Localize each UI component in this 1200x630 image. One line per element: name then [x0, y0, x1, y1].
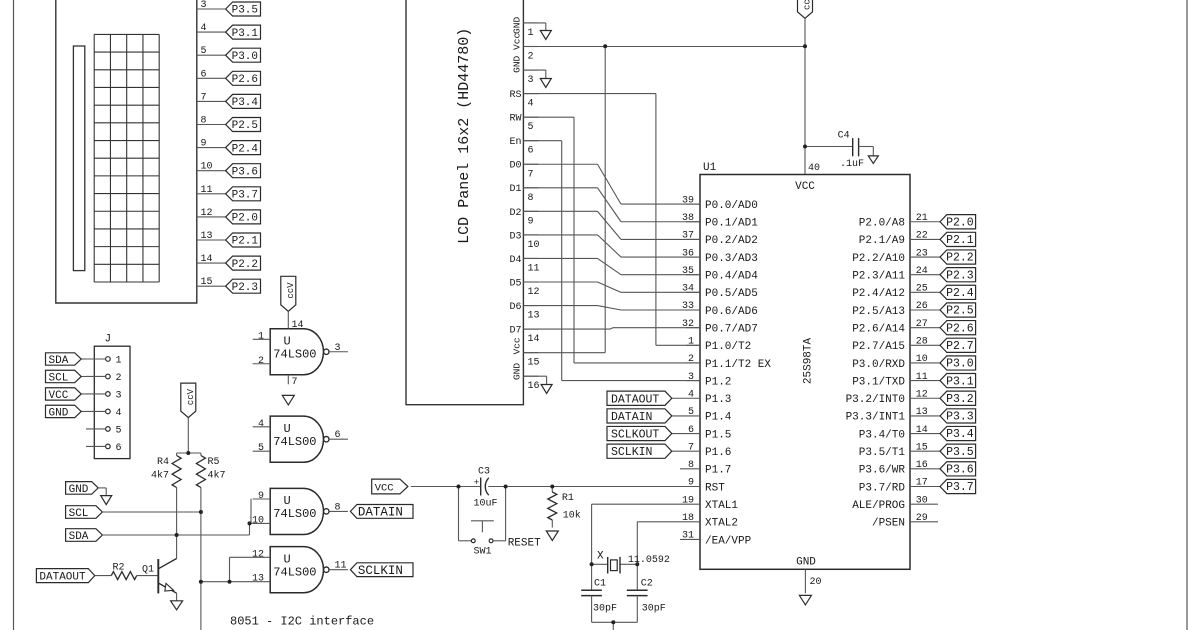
svg-text:30pF: 30pF — [593, 604, 617, 615]
svg-text:SCLKIN: SCLKIN — [611, 446, 652, 459]
svg-text:P2.0: P2.0 — [946, 216, 974, 229]
svg-text:11.0592: 11.0592 — [628, 555, 670, 566]
svg-text:22: 22 — [916, 231, 928, 242]
svg-text:P3.3: P3.3 — [946, 411, 974, 424]
svg-text:4k7: 4k7 — [151, 470, 169, 482]
svg-text:P3.2/INT0: P3.2/INT0 — [846, 394, 905, 406]
svg-text:DATAIN: DATAIN — [611, 411, 652, 424]
svg-text:5: 5 — [201, 46, 207, 57]
svg-text:4: 4 — [116, 408, 122, 419]
svg-text:4: 4 — [201, 23, 207, 34]
svg-text:7: 7 — [292, 377, 298, 388]
svg-text:ccV: ccV — [186, 388, 196, 405]
svg-text:6: 6 — [116, 443, 122, 454]
svg-text:En: En — [509, 137, 521, 148]
svg-text:4: 4 — [688, 389, 694, 400]
svg-text:P2.4: P2.4 — [946, 287, 974, 300]
svg-text:J: J — [105, 334, 112, 346]
svg-text:6: 6 — [335, 430, 341, 441]
svg-text:P2.6: P2.6 — [232, 74, 258, 86]
svg-text:P0.2/AD2: P0.2/AD2 — [705, 235, 758, 247]
svg-text:GND: GND — [512, 17, 523, 34]
svg-text:6: 6 — [528, 146, 534, 157]
svg-text:P3.0: P3.0 — [232, 51, 258, 63]
svg-text:P2.6/A14: P2.6/A14 — [852, 323, 905, 335]
svg-text:GND: GND — [69, 484, 89, 496]
svg-text:2: 2 — [258, 356, 264, 367]
svg-text:DATAOUT: DATAOUT — [39, 572, 86, 584]
svg-text:4: 4 — [528, 99, 534, 110]
svg-text:P3.4/T0: P3.4/T0 — [859, 429, 905, 441]
svg-text:D7: D7 — [509, 326, 521, 337]
svg-text:P2.4: P2.4 — [232, 143, 259, 155]
svg-text:P3.2: P3.2 — [946, 393, 974, 406]
svg-text:10uF: 10uF — [474, 499, 498, 510]
svg-text:SCLKIN: SCLKIN — [358, 564, 403, 578]
svg-text:P2.1: P2.1 — [946, 234, 974, 247]
svg-text:XTAL2: XTAL2 — [705, 518, 738, 530]
svg-text:P2.6: P2.6 — [946, 322, 974, 335]
svg-text:25S98TA: 25S98TA — [803, 338, 815, 385]
svg-text:P3.0/RXD: P3.0/RXD — [852, 359, 905, 371]
svg-text:P3.5: P3.5 — [232, 5, 258, 17]
svg-text:P2.2/A10: P2.2/A10 — [852, 253, 905, 265]
svg-text:12: 12 — [528, 287, 540, 298]
svg-text:P3.0: P3.0 — [946, 358, 974, 371]
svg-text:P3.5/T1: P3.5/T1 — [859, 447, 906, 459]
svg-text:P2.3/A11: P2.3/A11 — [852, 271, 905, 283]
svg-text:19: 19 — [682, 495, 694, 506]
svg-text:C1: C1 — [594, 579, 606, 590]
svg-text:P3.3/INT1: P3.3/INT1 — [846, 412, 906, 424]
svg-text:P2.4/A12: P2.4/A12 — [852, 288, 905, 300]
svg-text:4k7: 4k7 — [208, 470, 226, 482]
svg-text:8: 8 — [528, 193, 534, 204]
svg-text:P0.0/AD0: P0.0/AD0 — [705, 200, 758, 212]
svg-text:ccV: ccV — [803, 0, 813, 10]
svg-text:P0.4/AD4: P0.4/AD4 — [705, 271, 758, 283]
svg-text:P1.6: P1.6 — [705, 447, 731, 459]
svg-text:74LS00: 74LS00 — [273, 347, 316, 361]
svg-text:GND: GND — [512, 363, 523, 380]
svg-text:37: 37 — [682, 231, 694, 242]
svg-text:DATAIN: DATAIN — [358, 506, 403, 520]
svg-text:P1.0/T2: P1.0/T2 — [705, 341, 751, 353]
svg-text:3: 3 — [116, 391, 122, 402]
svg-text:P1.7: P1.7 — [705, 465, 731, 477]
svg-text:8: 8 — [201, 116, 207, 127]
svg-text:P2.0/A8: P2.0/A8 — [859, 218, 905, 230]
svg-text:12: 12 — [201, 208, 213, 219]
svg-text:D6: D6 — [509, 302, 521, 313]
svg-text:VCC: VCC — [795, 181, 815, 193]
svg-text:40: 40 — [808, 163, 820, 174]
svg-text:P3.1/TXD: P3.1/TXD — [852, 376, 905, 388]
svg-text:P1.2: P1.2 — [705, 376, 731, 388]
svg-text:LCD Panel 16x2 (HD44780): LCD Panel 16x2 (HD44780) — [456, 28, 473, 244]
svg-text:RS: RS — [509, 90, 521, 101]
svg-text:10: 10 — [201, 162, 213, 173]
svg-text:C2: C2 — [641, 579, 653, 590]
svg-text:GND: GND — [796, 557, 816, 569]
svg-text:RESET: RESET — [508, 538, 541, 550]
svg-text:74LS00: 74LS00 — [273, 565, 316, 579]
svg-text:R5: R5 — [208, 457, 220, 468]
svg-text:Vcc: Vcc — [512, 33, 523, 50]
svg-text:U1: U1 — [703, 162, 717, 174]
svg-text:5: 5 — [258, 443, 264, 454]
svg-text:P2.5: P2.5 — [946, 305, 974, 318]
svg-text:VCC: VCC — [49, 390, 69, 402]
svg-text:13: 13 — [528, 311, 540, 322]
svg-text:7: 7 — [528, 169, 534, 180]
svg-text:20: 20 — [810, 577, 822, 588]
svg-text:X: X — [597, 551, 604, 563]
svg-text:DATAOUT: DATAOUT — [611, 393, 659, 406]
svg-text:11: 11 — [528, 263, 540, 274]
svg-text:32: 32 — [682, 319, 694, 330]
svg-text:P1.1/T2 EX: P1.1/T2 EX — [705, 359, 771, 371]
svg-text:P2.2: P2.2 — [946, 252, 974, 265]
svg-text:10: 10 — [528, 240, 540, 251]
svg-text:4: 4 — [258, 419, 264, 430]
svg-text:10k: 10k — [563, 510, 581, 522]
svg-text:8051 - I2C interface: 8051 - I2C interface — [230, 615, 374, 629]
svg-text:23: 23 — [916, 248, 928, 259]
svg-text:P3.6/WR: P3.6/WR — [859, 465, 906, 477]
svg-text:P2.1/A9: P2.1/A9 — [859, 235, 905, 247]
svg-text:ccV: ccV — [286, 282, 296, 299]
svg-text:14: 14 — [292, 320, 304, 331]
svg-text:P1.5: P1.5 — [705, 429, 731, 441]
svg-text:12: 12 — [252, 549, 264, 560]
svg-text:Vcc: Vcc — [512, 337, 523, 354]
svg-text:17: 17 — [916, 478, 928, 489]
svg-text:6: 6 — [688, 425, 694, 436]
svg-text:C3: C3 — [478, 467, 490, 478]
svg-text:VCC: VCC — [375, 482, 394, 494]
svg-text:P2.5: P2.5 — [232, 120, 258, 132]
svg-text:P2.0: P2.0 — [232, 213, 258, 225]
svg-text:P2.7: P2.7 — [946, 340, 974, 353]
svg-text:P1.3: P1.3 — [705, 394, 731, 406]
svg-text:13: 13 — [252, 574, 264, 585]
svg-text:13: 13 — [916, 407, 928, 418]
svg-text:P2.7/A15: P2.7/A15 — [852, 341, 905, 353]
svg-text:2: 2 — [528, 52, 534, 63]
svg-text:GND: GND — [512, 55, 523, 72]
svg-text:1: 1 — [116, 356, 122, 367]
svg-text:7: 7 — [201, 92, 207, 103]
svg-text:9: 9 — [688, 478, 694, 489]
svg-text:D1: D1 — [509, 184, 521, 195]
svg-text:15: 15 — [528, 358, 540, 369]
svg-text:10: 10 — [252, 515, 264, 526]
svg-text:D2: D2 — [509, 208, 521, 219]
svg-text:SDA: SDA — [49, 355, 69, 367]
svg-text:Q1: Q1 — [142, 565, 154, 576]
svg-text:5: 5 — [528, 122, 534, 133]
svg-text:P3.6: P3.6 — [946, 464, 974, 477]
svg-text:14: 14 — [528, 334, 540, 345]
svg-text:P0.5/AD5: P0.5/AD5 — [705, 288, 758, 300]
svg-text:P3.7: P3.7 — [232, 190, 258, 202]
svg-text:/EA/VPP: /EA/VPP — [705, 535, 752, 547]
svg-text:74LS00: 74LS00 — [273, 435, 316, 449]
svg-text:RST: RST — [705, 482, 725, 494]
svg-text:5: 5 — [688, 407, 694, 418]
svg-text:8: 8 — [335, 502, 341, 513]
svg-text:28: 28 — [916, 337, 928, 348]
svg-text:2: 2 — [116, 373, 122, 384]
svg-text:16: 16 — [528, 381, 540, 392]
svg-text:SW1: SW1 — [474, 547, 492, 558]
svg-text:11: 11 — [201, 185, 213, 196]
svg-text:P3.1: P3.1 — [232, 28, 259, 40]
svg-text:P1.4: P1.4 — [705, 412, 732, 424]
svg-text:1: 1 — [688, 337, 694, 348]
svg-text:5: 5 — [116, 426, 122, 437]
svg-text:P2.3: P2.3 — [946, 269, 974, 282]
svg-text:12: 12 — [916, 389, 928, 400]
svg-text:P0.7/AD7: P0.7/AD7 — [705, 323, 758, 335]
svg-text:P2.5/A13: P2.5/A13 — [852, 306, 905, 318]
svg-text:P3.4: P3.4 — [232, 97, 259, 109]
svg-text:SCLKOUT: SCLKOUT — [611, 429, 659, 442]
svg-text:P0.6/AD6: P0.6/AD6 — [705, 306, 758, 318]
svg-text:33: 33 — [682, 301, 694, 312]
svg-text:3: 3 — [528, 75, 534, 86]
svg-text:3: 3 — [201, 0, 207, 11]
svg-text:P3.7: P3.7 — [946, 481, 974, 494]
svg-text:GND: GND — [49, 407, 69, 419]
svg-text:+: + — [474, 478, 479, 488]
svg-text:14: 14 — [916, 425, 928, 436]
svg-text:/PSEN: /PSEN — [872, 518, 905, 530]
svg-text:D0: D0 — [509, 161, 521, 172]
svg-text:P0.3/AD3: P0.3/AD3 — [705, 253, 758, 265]
svg-text:9: 9 — [528, 216, 534, 227]
svg-text:30: 30 — [916, 495, 928, 506]
svg-text:9: 9 — [201, 139, 207, 150]
svg-text:C4: C4 — [838, 131, 850, 142]
svg-text:P3.7/RD: P3.7/RD — [859, 482, 906, 494]
svg-text:D5: D5 — [509, 278, 521, 289]
svg-text:SCL: SCL — [49, 372, 69, 384]
svg-text:R2: R2 — [113, 563, 125, 574]
svg-text:RW: RW — [509, 114, 521, 125]
svg-text:1: 1 — [258, 331, 264, 342]
svg-text:15: 15 — [201, 277, 213, 288]
svg-text:36: 36 — [682, 248, 694, 259]
svg-text:P3.4: P3.4 — [946, 428, 974, 441]
svg-text:P3.5: P3.5 — [946, 446, 974, 459]
svg-text:30pF: 30pF — [642, 604, 666, 615]
svg-text:P2.3: P2.3 — [232, 282, 258, 294]
svg-text:3: 3 — [335, 343, 341, 354]
svg-text:XTAL1: XTAL1 — [705, 500, 738, 512]
svg-text:1: 1 — [528, 28, 534, 39]
svg-text:.1uF: .1uF — [840, 159, 864, 170]
svg-text:26: 26 — [916, 301, 928, 312]
svg-text:D4: D4 — [509, 255, 521, 266]
svg-text:P3.6: P3.6 — [232, 166, 258, 178]
svg-text:13: 13 — [201, 231, 213, 242]
svg-text:D3: D3 — [509, 231, 521, 242]
svg-text:R1: R1 — [562, 493, 574, 504]
svg-text:P0.1/AD1: P0.1/AD1 — [705, 218, 758, 230]
svg-text:27: 27 — [916, 319, 928, 330]
svg-text:9: 9 — [258, 491, 264, 502]
svg-text:ALE/PROG: ALE/PROG — [852, 500, 905, 512]
svg-text:P2.1: P2.1 — [232, 236, 259, 248]
svg-text:6: 6 — [201, 69, 207, 80]
svg-text:P2.2: P2.2 — [232, 259, 258, 271]
svg-text:SDA: SDA — [69, 531, 89, 543]
svg-text:SCL: SCL — [69, 508, 89, 520]
svg-text:R4: R4 — [157, 457, 169, 468]
svg-text:14: 14 — [201, 254, 213, 265]
svg-text:P3.1: P3.1 — [946, 375, 974, 388]
svg-text:11: 11 — [335, 561, 347, 572]
svg-text:74LS00: 74LS00 — [273, 507, 316, 521]
